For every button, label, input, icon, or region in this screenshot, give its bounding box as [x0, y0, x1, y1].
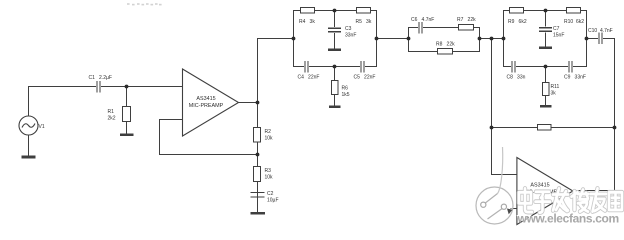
svg-text:R9 6k2: R9 6k2	[508, 19, 527, 25]
svg-text:C10 4.7nF: C10 4.7nF	[588, 28, 613, 34]
svg-text:R8 22k: R8 22k	[436, 42, 455, 48]
svg-text:C9 33nF: C9 33nF	[564, 75, 586, 81]
svg-text:R10 6k2: R10 6k2	[564, 19, 584, 25]
svg-text:C4 22nF: C4 22nF	[298, 75, 320, 81]
svg-text:10µF: 10µF	[267, 198, 279, 204]
svg-text:C1 2.2µF: C1 2.2µF	[89, 75, 112, 81]
svg-text:R1: R1	[108, 109, 115, 115]
svg-text:www.elecfans.com: www.elecfans.com	[517, 211, 619, 225]
svg-text:C5 22nF: C5 22nF	[354, 75, 376, 81]
svg-text:10k: 10k	[265, 175, 274, 181]
svg-text:33nF: 33nF	[345, 33, 356, 39]
svg-text:C6 4.7nF: C6 4.7nF	[411, 17, 434, 23]
svg-text:AS3415: AS3415	[530, 183, 549, 189]
svg-text:MIC-PREAMP: MIC-PREAMP	[189, 103, 224, 109]
svg-text:3k: 3k	[551, 91, 557, 97]
svg-text:R5 3k: R5 3k	[356, 19, 372, 25]
svg-text:2k2: 2k2	[108, 116, 116, 122]
svg-text:C2: C2	[267, 191, 274, 197]
svg-text:AS3415: AS3415	[196, 96, 215, 102]
svg-text:C3: C3	[345, 26, 352, 32]
svg-text:R4 3k: R4 3k	[299, 19, 315, 25]
svg-text:R7 22k: R7 22k	[457, 17, 476, 23]
svg-text:1k5: 1k5	[342, 92, 350, 98]
svg-text:V1: V1	[39, 124, 45, 130]
svg-text:R6: R6	[342, 86, 349, 92]
svg-text:R2: R2	[265, 129, 272, 135]
svg-text:R11: R11	[551, 84, 560, 90]
svg-text:10k: 10k	[265, 136, 274, 142]
svg-text:C7: C7	[553, 26, 560, 32]
svg-text:R3: R3	[265, 168, 272, 174]
svg-text:C8 33n: C8 33n	[507, 75, 526, 81]
svg-text:15nF: 15nF	[553, 33, 564, 39]
